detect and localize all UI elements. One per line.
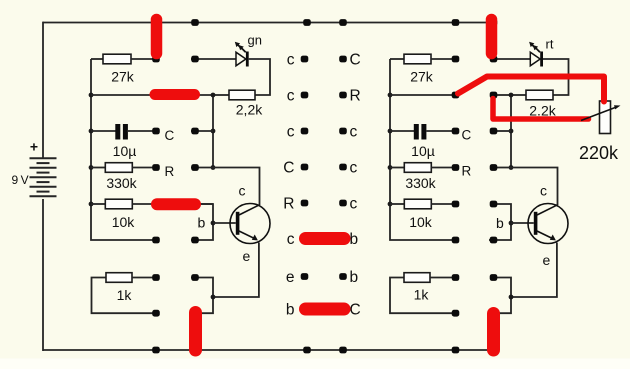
transistor Q1 (left)	[230, 204, 270, 244]
wire: collector Q1 from net row4	[213, 168, 260, 206]
svg-text:c: c	[350, 124, 358, 141]
potentiometer 220k body	[600, 101, 611, 134]
svg-text:b: b	[198, 215, 206, 231]
svg-text:10k: 10k	[112, 214, 136, 230]
potentiometer 220k wiper arrow	[581, 105, 621, 120]
wire: collector Q2 from net row4	[511, 168, 558, 206]
svg-text:c: c	[287, 231, 295, 248]
junction dots on right bus	[388, 93, 393, 207]
resistor 2.2k (right)	[511, 90, 553, 100]
wire: emitter bracket (row7 to row8 jumper)	[191, 278, 213, 314]
node dots middle column 4 (x=343)	[339, 19, 347, 353]
resistor 27k (left)	[91, 54, 153, 64]
wire: LED gn cathode down to 2,2k (left)	[249, 59, 270, 95]
red jumper: right bottom (row8 to ground rail)	[487, 314, 500, 351]
red jumper: left top (rail to 27k row)	[151, 20, 163, 54]
LED gn: anode wire from col2 row1	[191, 58, 236, 60]
svg-text:C: C	[165, 128, 175, 143]
wire: bottom ground rail	[43, 349, 494, 351]
svg-text:C: C	[350, 302, 361, 319]
svg-text:10µ: 10µ	[113, 143, 137, 159]
capacitor 10u (right) plates	[390, 124, 452, 140]
wire: col2 row3 to net	[191, 130, 213, 132]
svg-text:2.2k: 2.2k	[529, 103, 556, 119]
svg-text:e: e	[286, 269, 295, 286]
svg-text:c: c	[350, 160, 358, 177]
LED gn cathode bar	[246, 52, 249, 67]
svg-text:27k: 27k	[410, 69, 434, 85]
svg-text:R: R	[165, 164, 175, 179]
svg-text:C: C	[350, 52, 361, 69]
battery 9V	[30, 158, 57, 196]
svg-text:b: b	[350, 269, 359, 286]
node dots column 1 (x=156)	[152, 19, 160, 353]
wire: row2 right bus to col5 dot	[390, 94, 453, 96]
red jumper: left bottom (row8 to ground rail)	[189, 313, 202, 351]
red jumper: right top (rail to 27k row)	[486, 20, 498, 54]
red jumper: middle row8 (b-C)	[306, 303, 345, 316]
wire: base bracket Q2 (row5 to row6)	[489, 204, 511, 240]
resistor 330k (left)	[91, 163, 153, 173]
LED rt light arrows	[529, 42, 540, 52]
transistor Q2 (right)	[528, 204, 568, 244]
wire: left rail from top rail to battery +	[42, 22, 44, 158]
svg-text:1k: 1k	[414, 287, 430, 303]
svg-text:C: C	[283, 160, 294, 177]
red jumper: left row5 (col1-col2)	[157, 198, 195, 210]
node dots column 2 (x=195)	[191, 19, 199, 353]
svg-text:b: b	[350, 231, 359, 248]
wire: col6 row2 to 2.2k junction	[496, 94, 511, 96]
wire: emitter Q1 down and to ground bracket	[213, 243, 259, 298]
wire: base Q1	[213, 222, 236, 224]
svg-text:330k: 330k	[106, 175, 137, 191]
LED rt: anode wire from col6 row1	[494, 58, 530, 60]
svg-text:rt: rt	[546, 37, 554, 52]
svg-text:R: R	[462, 164, 472, 179]
svg-text:b: b	[286, 302, 295, 319]
svg-text:10µ: 10µ	[411, 143, 435, 159]
resistor 10k (left)	[91, 199, 213, 209]
red jumper: middle row6 (c-b)	[306, 232, 345, 245]
node dots column 5 (x=455.5)	[452, 19, 460, 353]
svg-text:9 V: 9 V	[12, 173, 29, 187]
wire: base Q2	[511, 222, 534, 224]
LED gn triangle	[236, 52, 246, 66]
LED rt cathode bar	[540, 52, 543, 67]
svg-text:220k: 220k	[579, 143, 619, 163]
resistor 1k (left) with loop wire to row8	[92, 273, 153, 314]
node dots middle column 3 (x=304.5)	[301, 19, 311, 353]
resistor 2,2k (left)	[213, 90, 255, 100]
resistor 10k (right)	[390, 199, 452, 209]
svg-text:e: e	[243, 248, 251, 264]
svg-text:b: b	[496, 215, 504, 231]
svg-text:e: e	[543, 252, 551, 268]
red jumper: left row2 (col1-col2)	[155, 89, 195, 100]
svg-text:+: +	[30, 139, 38, 155]
svg-text:R: R	[350, 88, 361, 105]
wire: top +9V rail	[43, 22, 494, 24]
wire: emitter bracket (row7 to row8 jumper)	[496, 278, 511, 314]
resistor 330k (right)	[390, 163, 452, 173]
wire: row2 from left bus to 2,2k junction	[91, 94, 213, 96]
node dots column 6 (x=493.5)	[490, 19, 498, 353]
wire: left vertical net x=213 rows 2-4	[212, 95, 214, 168]
svg-text:c: c	[287, 52, 295, 69]
wire: right vertical net x=511 rows 2-4	[510, 95, 512, 168]
svg-text:c: c	[287, 124, 295, 141]
svg-text:gn: gn	[248, 33, 262, 48]
wire: left bus vertical (component common)	[91, 59, 153, 240]
junction dots on left bus	[89, 93, 94, 207]
LED rt triangle	[530, 52, 540, 66]
svg-text:c: c	[540, 183, 547, 199]
wire: LED rt cathode down to 2.2k (right)	[543, 59, 569, 95]
wire: col2 row4 to net	[191, 167, 213, 169]
resistor 27k (right)	[390, 54, 452, 64]
svg-text:R: R	[283, 196, 294, 213]
wire: col6 row4 to net	[496, 167, 511, 169]
wire: left rail from battery - to bottom rail	[42, 199, 44, 351]
svg-text:c: c	[239, 183, 246, 199]
svg-text:330k: 330k	[405, 175, 436, 191]
svg-text:c: c	[350, 196, 358, 213]
wire: right bus vertical (component common)	[390, 59, 452, 240]
svg-text:c: c	[287, 88, 295, 105]
wire: emitter Q2 down and to ground bracket	[511, 243, 557, 298]
wire: base bracket Q1 (row5 to row6)	[191, 204, 213, 240]
red wire: col6 row2 to 220k wiper	[493, 99, 589, 120]
svg-text:2,2k: 2,2k	[236, 102, 263, 118]
red wire: col5 row2 to 220k top terminal	[458, 77, 604, 102]
svg-text:C: C	[462, 128, 472, 143]
svg-text:27k: 27k	[111, 69, 135, 85]
svg-text:1k: 1k	[117, 287, 133, 303]
LED gn light arrows	[235, 42, 246, 52]
svg-text:10k: 10k	[409, 214, 433, 230]
resistor 1k (right) with loop wire to row8	[390, 273, 452, 314]
capacitor 10u (left) plates	[91, 124, 153, 140]
wire: col6 row3 to net	[496, 130, 511, 132]
